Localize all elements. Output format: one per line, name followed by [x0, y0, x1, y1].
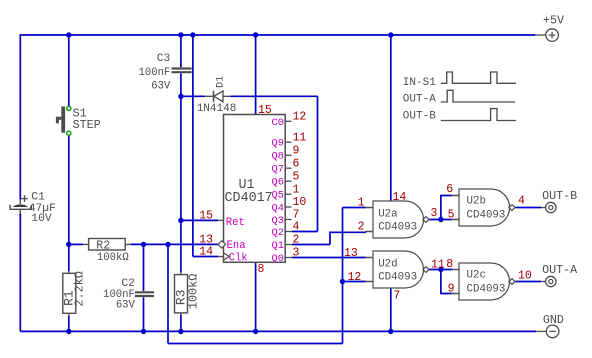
svg-text:5: 5 — [293, 170, 300, 183]
svg-text:11: 11 — [431, 259, 445, 272]
svg-text:Q7: Q7 — [272, 164, 284, 176]
wire U2a pin14 to rail — [390, 35, 392, 201]
junction R1 bottom rail — [66, 329, 71, 334]
wire node down to U2c pin9 — [441, 270, 452, 294]
svg-text:C1: C1 — [31, 191, 45, 203]
svg-text:13: 13 — [344, 247, 358, 260]
wire clock branch to U1 Clk — [193, 256, 218, 258]
wire C2 top lead — [143, 244, 145, 291]
wire U1 VDD top pin — [255, 35, 257, 115]
svg-text:10V: 10V — [31, 213, 52, 225]
svg-text:100kΩ: 100kΩ — [187, 274, 201, 309]
junction U2d pin7 bottom rail — [388, 329, 393, 334]
wire lower horizontal to U2d pin12 — [168, 343, 343, 345]
svg-text:C3: C3 — [157, 53, 171, 65]
svg-text:9: 9 — [448, 283, 455, 296]
svg-text:Clk: Clk — [229, 252, 248, 264]
svg-text:1N4148: 1N4148 — [197, 103, 237, 115]
wire left vertical rail upper — [19, 34, 21, 199]
svg-text:OUT-B: OUT-B — [403, 110, 436, 122]
svg-text:2: 2 — [293, 234, 300, 247]
wire Ret to U1 — [181, 219, 218, 221]
junction reset/diode node — [178, 94, 183, 99]
nand gate U2b CD4093 — [446, 183, 525, 226]
+5V supply symbol — [535, 29, 558, 42]
svg-text:12: 12 — [293, 111, 307, 124]
svg-text:Q1: Q1 — [272, 240, 284, 252]
junction R3 bottom rail — [178, 329, 183, 334]
svg-text:6: 6 — [293, 157, 300, 170]
nand gate U2a CD4093 — [358, 191, 438, 238]
wire clock branch vertical — [192, 35, 194, 257]
svg-text:2: 2 — [358, 221, 365, 234]
waveform trace OUT-A — [403, 90, 515, 105]
svg-text:OUT-A: OUT-A — [542, 263, 578, 277]
svg-text:CD4093: CD4093 — [467, 210, 506, 222]
capacitor C3 100nF — [139, 53, 192, 92]
svg-text:GND: GND — [543, 313, 564, 327]
svg-text:Q4: Q4 — [272, 203, 284, 215]
junction clock branch top rail — [190, 32, 195, 37]
svg-text:Ena: Ena — [227, 240, 246, 252]
svg-text:Q5: Q5 — [272, 190, 284, 202]
U1 pin names — [272, 117, 284, 265]
svg-text:U2b: U2b — [467, 195, 486, 207]
junction R1/R2 node — [66, 242, 71, 247]
svg-text:CD4093: CD4093 — [378, 272, 417, 284]
wire Q1 jog up — [330, 232, 366, 244]
junction S1 top rail — [66, 32, 71, 37]
capacitor C1 47uF electrolytic — [10, 191, 56, 225]
junction U1 pin8 bottom rail — [253, 329, 258, 334]
svg-text:R2: R2 — [96, 240, 110, 253]
svg-text:U2d: U2d — [378, 258, 397, 270]
resistor R2 100k — [83, 239, 131, 264]
wire R3 bottom lead — [180, 315, 182, 331]
nand gate U2c CD4093 — [446, 258, 532, 300]
wire S1 lower branch — [68, 135, 70, 244]
svg-text:Q6: Q6 — [272, 177, 284, 189]
svg-text:14: 14 — [393, 191, 407, 204]
wire U1 pin8 bottom — [255, 262, 257, 331]
svg-text:11: 11 — [293, 131, 307, 144]
junction U2d pin12 node — [340, 279, 345, 284]
wire D1 anode to Q2 riser — [231, 95, 318, 97]
wire C2 bottom lead — [143, 297, 145, 331]
svg-text:7: 7 — [393, 289, 400, 302]
wire U1 Q1 out — [292, 244, 330, 246]
wire node to R2 left — [69, 243, 83, 245]
svg-text:STEP: STEP — [73, 118, 101, 132]
svg-text:9: 9 — [293, 144, 300, 157]
svg-text:CD4093: CD4093 — [467, 284, 506, 296]
svg-text:14: 14 — [199, 246, 213, 259]
junction U1 VDD top rail — [253, 32, 258, 37]
svg-text:100kΩ: 100kΩ — [97, 252, 129, 264]
svg-text:C0: C0 — [272, 117, 284, 129]
wire U2d output to node — [429, 269, 441, 271]
junction U2d out node — [438, 267, 443, 272]
resistor R3 100k — [173, 272, 200, 315]
svg-text:13: 13 — [199, 234, 213, 247]
svg-text:63V: 63V — [151, 81, 171, 93]
U1 pin numbers — [199, 104, 306, 276]
waveform trace IN-S1 — [403, 72, 516, 89]
svg-text:Q9: Q9 — [272, 138, 284, 150]
svg-text:D1: D1 — [216, 76, 227, 88]
junction U2a out node — [438, 217, 443, 222]
capacitor C2 100nF — [103, 278, 154, 312]
wire U2d pin12 node up to U2a pin1 — [342, 208, 344, 282]
svg-text:3: 3 — [431, 207, 438, 220]
svg-text:CD4017: CD4017 — [225, 191, 273, 206]
svg-text:63V: 63V — [116, 300, 136, 312]
svg-text:6: 6 — [446, 183, 453, 196]
nand gate U2d CD4093 — [344, 247, 445, 302]
wire R1 bottom lead — [68, 316, 70, 331]
wire R2 right to U1 Ena — [131, 243, 218, 245]
junction C2 top node — [141, 242, 146, 247]
IC U1 CD4017 box — [224, 115, 286, 263]
svg-text:1: 1 — [293, 183, 300, 196]
wire reset node to R3 top — [180, 220, 182, 272]
svg-text:12: 12 — [348, 271, 362, 284]
wire left vertical rail lower — [19, 214, 21, 332]
svg-text:10: 10 — [518, 270, 532, 283]
junction U2a pin14 top rail — [388, 32, 393, 37]
U1 Ena inverted pin diamond — [218, 241, 226, 248]
wire reset node vertical — [180, 96, 182, 220]
svg-text:8: 8 — [258, 263, 265, 276]
wire reset node to D1 cathode — [181, 95, 205, 97]
wire C3 top lead — [180, 35, 182, 67]
svg-text:U2a: U2a — [378, 208, 398, 220]
U1 right pin stubs — [218, 121, 292, 257]
svg-text:8: 8 — [446, 258, 453, 271]
svg-text:4: 4 — [293, 221, 300, 234]
svg-text:+5V: +5V — [543, 14, 564, 28]
wire Q2 riser vertical — [317, 96, 319, 231]
svg-text:10: 10 — [293, 196, 307, 209]
wire node to U2c pin8 — [441, 269, 452, 271]
resistor R1 2.2k — [62, 271, 87, 316]
pushbutton S1 STEP — [57, 106, 100, 135]
junction Ena branch node — [165, 242, 170, 247]
svg-text:15: 15 — [199, 210, 213, 223]
wire top +5V rail — [20, 34, 535, 36]
svg-text:CD4093: CD4093 — [378, 222, 417, 234]
junction C3 top rail — [178, 32, 183, 37]
svg-text:4: 4 — [518, 195, 525, 208]
svg-text:OUT-B: OUT-B — [542, 189, 577, 203]
wire bottom ground rail — [20, 330, 536, 332]
wire Q2 riser to U1 Q2 — [292, 231, 318, 233]
wire U2d pin7 to ground rail — [390, 288, 392, 331]
wire R1 top lead — [68, 244, 70, 271]
junction C2 bottom rail — [141, 329, 146, 334]
diode D1 1N4148 — [197, 76, 237, 115]
wire U2a pin1 — [343, 207, 367, 209]
wire node to U2b pin5 — [441, 219, 452, 221]
svg-text:Q0: Q0 — [272, 253, 284, 265]
junction Ret line — [178, 218, 183, 223]
wire U2b output to OUT-B — [516, 207, 542, 209]
wire up to U2d pin12 node — [342, 282, 344, 344]
connector OUT-A — [541, 263, 578, 286]
svg-text:U2c: U2c — [467, 269, 486, 281]
svg-text:Q8: Q8 — [272, 151, 284, 163]
U1 Clk edge triangle — [224, 253, 230, 260]
svg-text:OUT-A: OUT-A — [403, 94, 436, 106]
svg-text:1: 1 — [358, 197, 365, 210]
ground symbol GND — [536, 325, 559, 338]
waveform trace OUT-B — [403, 109, 516, 123]
svg-text:Q2: Q2 — [272, 227, 284, 239]
wire U1 Q0 to U2d pin13 — [292, 257, 366, 259]
svg-text:100nF: 100nF — [139, 67, 171, 79]
svg-text:2.2kΩ: 2.2kΩ — [73, 271, 87, 306]
svg-text:3: 3 — [293, 247, 300, 260]
wire S1 upper branch — [68, 35, 70, 106]
svg-text:5: 5 — [448, 209, 455, 222]
wire U2a output to node — [429, 219, 441, 221]
svg-text:Q3: Q3 — [272, 215, 284, 227]
connector OUT-B — [541, 189, 577, 213]
wire node up to U2b pin6 — [441, 196, 452, 220]
svg-text:IN-S1: IN-S1 — [403, 77, 436, 89]
wire C3 bottom lead to reset node — [180, 74, 182, 97]
wire Ena node down below rail — [167, 244, 169, 343]
wire U2c output to OUT-A — [516, 281, 542, 283]
svg-text:15: 15 — [258, 104, 272, 117]
svg-text:Ret: Ret — [226, 217, 245, 229]
wire U2d pin12 — [343, 281, 367, 283]
